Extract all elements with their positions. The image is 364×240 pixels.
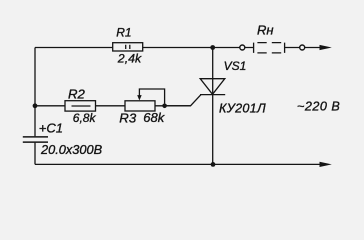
svg-text:+C1: +C1 [39, 120, 63, 135]
svg-text:68k: 68k [143, 110, 165, 125]
svg-text:Rн: Rн [257, 23, 274, 38]
svg-text:2,4k: 2,4k [117, 52, 142, 66]
svg-text:R3: R3 [119, 111, 137, 126]
svg-text:6,8k: 6,8k [73, 111, 97, 125]
svg-text:VS1: VS1 [224, 59, 247, 73]
svg-text:~220 В: ~220 В [297, 100, 340, 114]
svg-text:20.0x300В: 20.0x300В [40, 142, 103, 157]
svg-text:КУ201Л: КУ201Л [219, 101, 266, 115]
svg-text:R2: R2 [68, 87, 86, 102]
svg-text:R1: R1 [116, 26, 131, 40]
